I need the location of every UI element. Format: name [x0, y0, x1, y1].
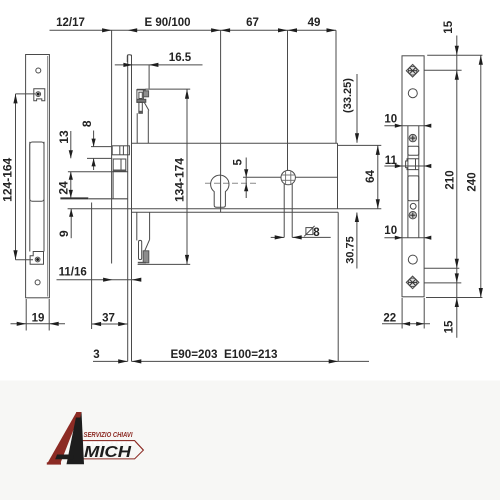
dimension 9	[70, 209, 72, 238]
logo key outline	[81, 441, 144, 459]
svg-text:37: 37	[102, 312, 115, 324]
svg-text:64: 64	[365, 170, 377, 183]
reference line y171.8	[68, 171, 128, 173]
dimension 8	[93, 131, 95, 147]
svg-text:16.5: 16.5	[169, 52, 192, 64]
dimension 16.5	[115, 64, 203, 66]
svg-text:11: 11	[385, 155, 398, 167]
svg-text:124-164: 124-164	[0, 157, 14, 201]
lock case bottom second line	[132, 211, 339, 213]
right plate outline	[402, 56, 424, 297]
svg-text:22: 22	[383, 313, 396, 325]
left plate top hole	[36, 68, 41, 73]
faceplate front line	[127, 55, 129, 362]
phillips screw upper	[409, 134, 416, 141]
dimension E90=203 E100=213	[132, 360, 370, 362]
svg-text:(33.25): (33.25)	[342, 78, 354, 113]
latch diagonal link	[144, 103, 149, 111]
euro profile cylinder hole	[211, 175, 229, 207]
dimension 124-164	[16, 93, 36, 95]
dimension 15 bottom	[455, 273, 459, 283]
reference line y198.2 thick	[60, 197, 88, 199]
dimension 240	[480, 55, 482, 297]
reference line y158.4	[87, 157, 112, 159]
svg-text:3: 3	[93, 349, 99, 361]
extension line case back	[335, 30, 337, 143]
lock case right edge	[337, 143, 339, 209]
torx screw bottom	[406, 276, 419, 289]
svg-text:10: 10	[384, 225, 397, 237]
latch bolt housing	[137, 89, 146, 91]
left plate lower latch box	[30, 252, 43, 265]
latch bottom reference line (134-174 lower)	[138, 263, 191, 265]
case back extension down	[337, 212, 339, 361]
svg-text:12/17: 12/17	[56, 17, 85, 29]
dimension 15 top	[456, 36, 458, 338]
svg-text:134-174: 134-174	[173, 158, 187, 202]
lower guide pin	[139, 240, 142, 259]
follower centre line	[243, 176, 338, 178]
svg-text:13: 13	[57, 130, 71, 144]
svg-text:8: 8	[80, 120, 94, 127]
dimension 134-174	[186, 89, 188, 264]
hub box B	[113, 159, 126, 171]
hub housing side line	[112, 172, 114, 199]
dimension 30.75	[356, 213, 358, 269]
torx screw top	[406, 64, 419, 77]
right plate hole bottom	[408, 255, 417, 264]
extension line follower axis	[287, 30, 289, 185]
lower latch block	[143, 251, 149, 263]
level line 10 lower	[384, 237, 428, 239]
dimension 24	[70, 172, 72, 198]
dimension (33.25)	[356, 74, 358, 143]
lock case top edge	[132, 142, 338, 144]
dimension 22	[401, 298, 403, 329]
svg-text:240: 240	[467, 172, 479, 191]
dimension 37	[91, 203, 93, 330]
cylinder centre dashed line	[205, 182, 258, 184]
dimension 11/16	[57, 279, 141, 281]
square cutout	[408, 146, 419, 155]
logo letter A	[47, 412, 84, 465]
svg-text:19: 19	[32, 312, 45, 324]
svg-text:MICH: MICH	[84, 444, 132, 461]
follower hole with knurl	[281, 170, 295, 184]
svg-text:8: 8	[313, 227, 320, 239]
dimension 19	[25, 299, 27, 331]
top dimension line	[50, 29, 337, 31]
svg-text:9: 9	[57, 230, 71, 237]
left plate bottom hole	[35, 280, 40, 285]
latch spring bar	[137, 99, 146, 102]
svg-text:30.75: 30.75	[344, 236, 356, 264]
svg-text:5: 5	[233, 159, 245, 166]
follower tangent lines	[283, 184, 285, 237]
svg-text:67: 67	[246, 17, 259, 29]
svg-text:49: 49	[308, 17, 321, 29]
faceplate top hook	[127, 55, 131, 62]
extension line latch tip plane	[111, 30, 113, 263]
svg-text:SERVIZIO CHIAVI: SERVIZIO CHIAVI	[84, 430, 134, 439]
strike tab	[406, 159, 419, 170]
latch top reference line (134-174 upper)	[145, 88, 190, 90]
svg-text:10: 10	[384, 113, 397, 125]
lower guide lines from case	[136, 212, 138, 240]
hub box A	[112, 146, 129, 155]
svg-text:11/16: 11/16	[59, 267, 87, 279]
phillips screw lower	[409, 212, 416, 219]
small hole in channel	[410, 203, 416, 209]
reference line y146.6	[91, 146, 112, 148]
reference lines right	[427, 54, 482, 56]
extension line key axis	[220, 30, 222, 212]
dimension 64	[338, 144, 382, 146]
light grey lower band	[0, 381, 500, 500]
svg-text:210: 210	[445, 170, 457, 189]
dimension 210	[455, 259, 459, 269]
dimension 5	[245, 158, 247, 199]
svg-text:24: 24	[56, 181, 70, 195]
svg-text:E 90/100: E 90/100	[144, 17, 190, 29]
faceplate back line	[131, 55, 133, 362]
latch bolt head (hatched)	[143, 91, 148, 97]
latch guide pin upper	[139, 102, 142, 113]
latch guide lines to case	[136, 113, 138, 143]
level line 11	[384, 165, 428, 167]
dimension square-8	[271, 236, 285, 238]
dimension 3	[93, 360, 128, 362]
svg-text:15: 15	[443, 20, 455, 33]
svg-text:E90=203 E100=213: E90=203 E100=213	[171, 347, 278, 361]
right plate channel	[407, 126, 409, 238]
right plate hole top	[408, 89, 417, 98]
left plate upper latch box	[34, 89, 45, 101]
left plate channel	[29, 142, 31, 252]
left counterplate outline	[26, 55, 50, 298]
logo key teeth	[83, 441, 88, 446]
lower diagonal link	[144, 240, 150, 253]
level line 10 upper	[384, 125, 428, 127]
svg-text:15: 15	[444, 320, 456, 333]
tall cutout	[408, 176, 419, 201]
dimension 13	[70, 131, 72, 158]
lock case bottom edge	[68, 208, 338, 210]
left plate sliding bolt (rounded)	[30, 142, 44, 201]
